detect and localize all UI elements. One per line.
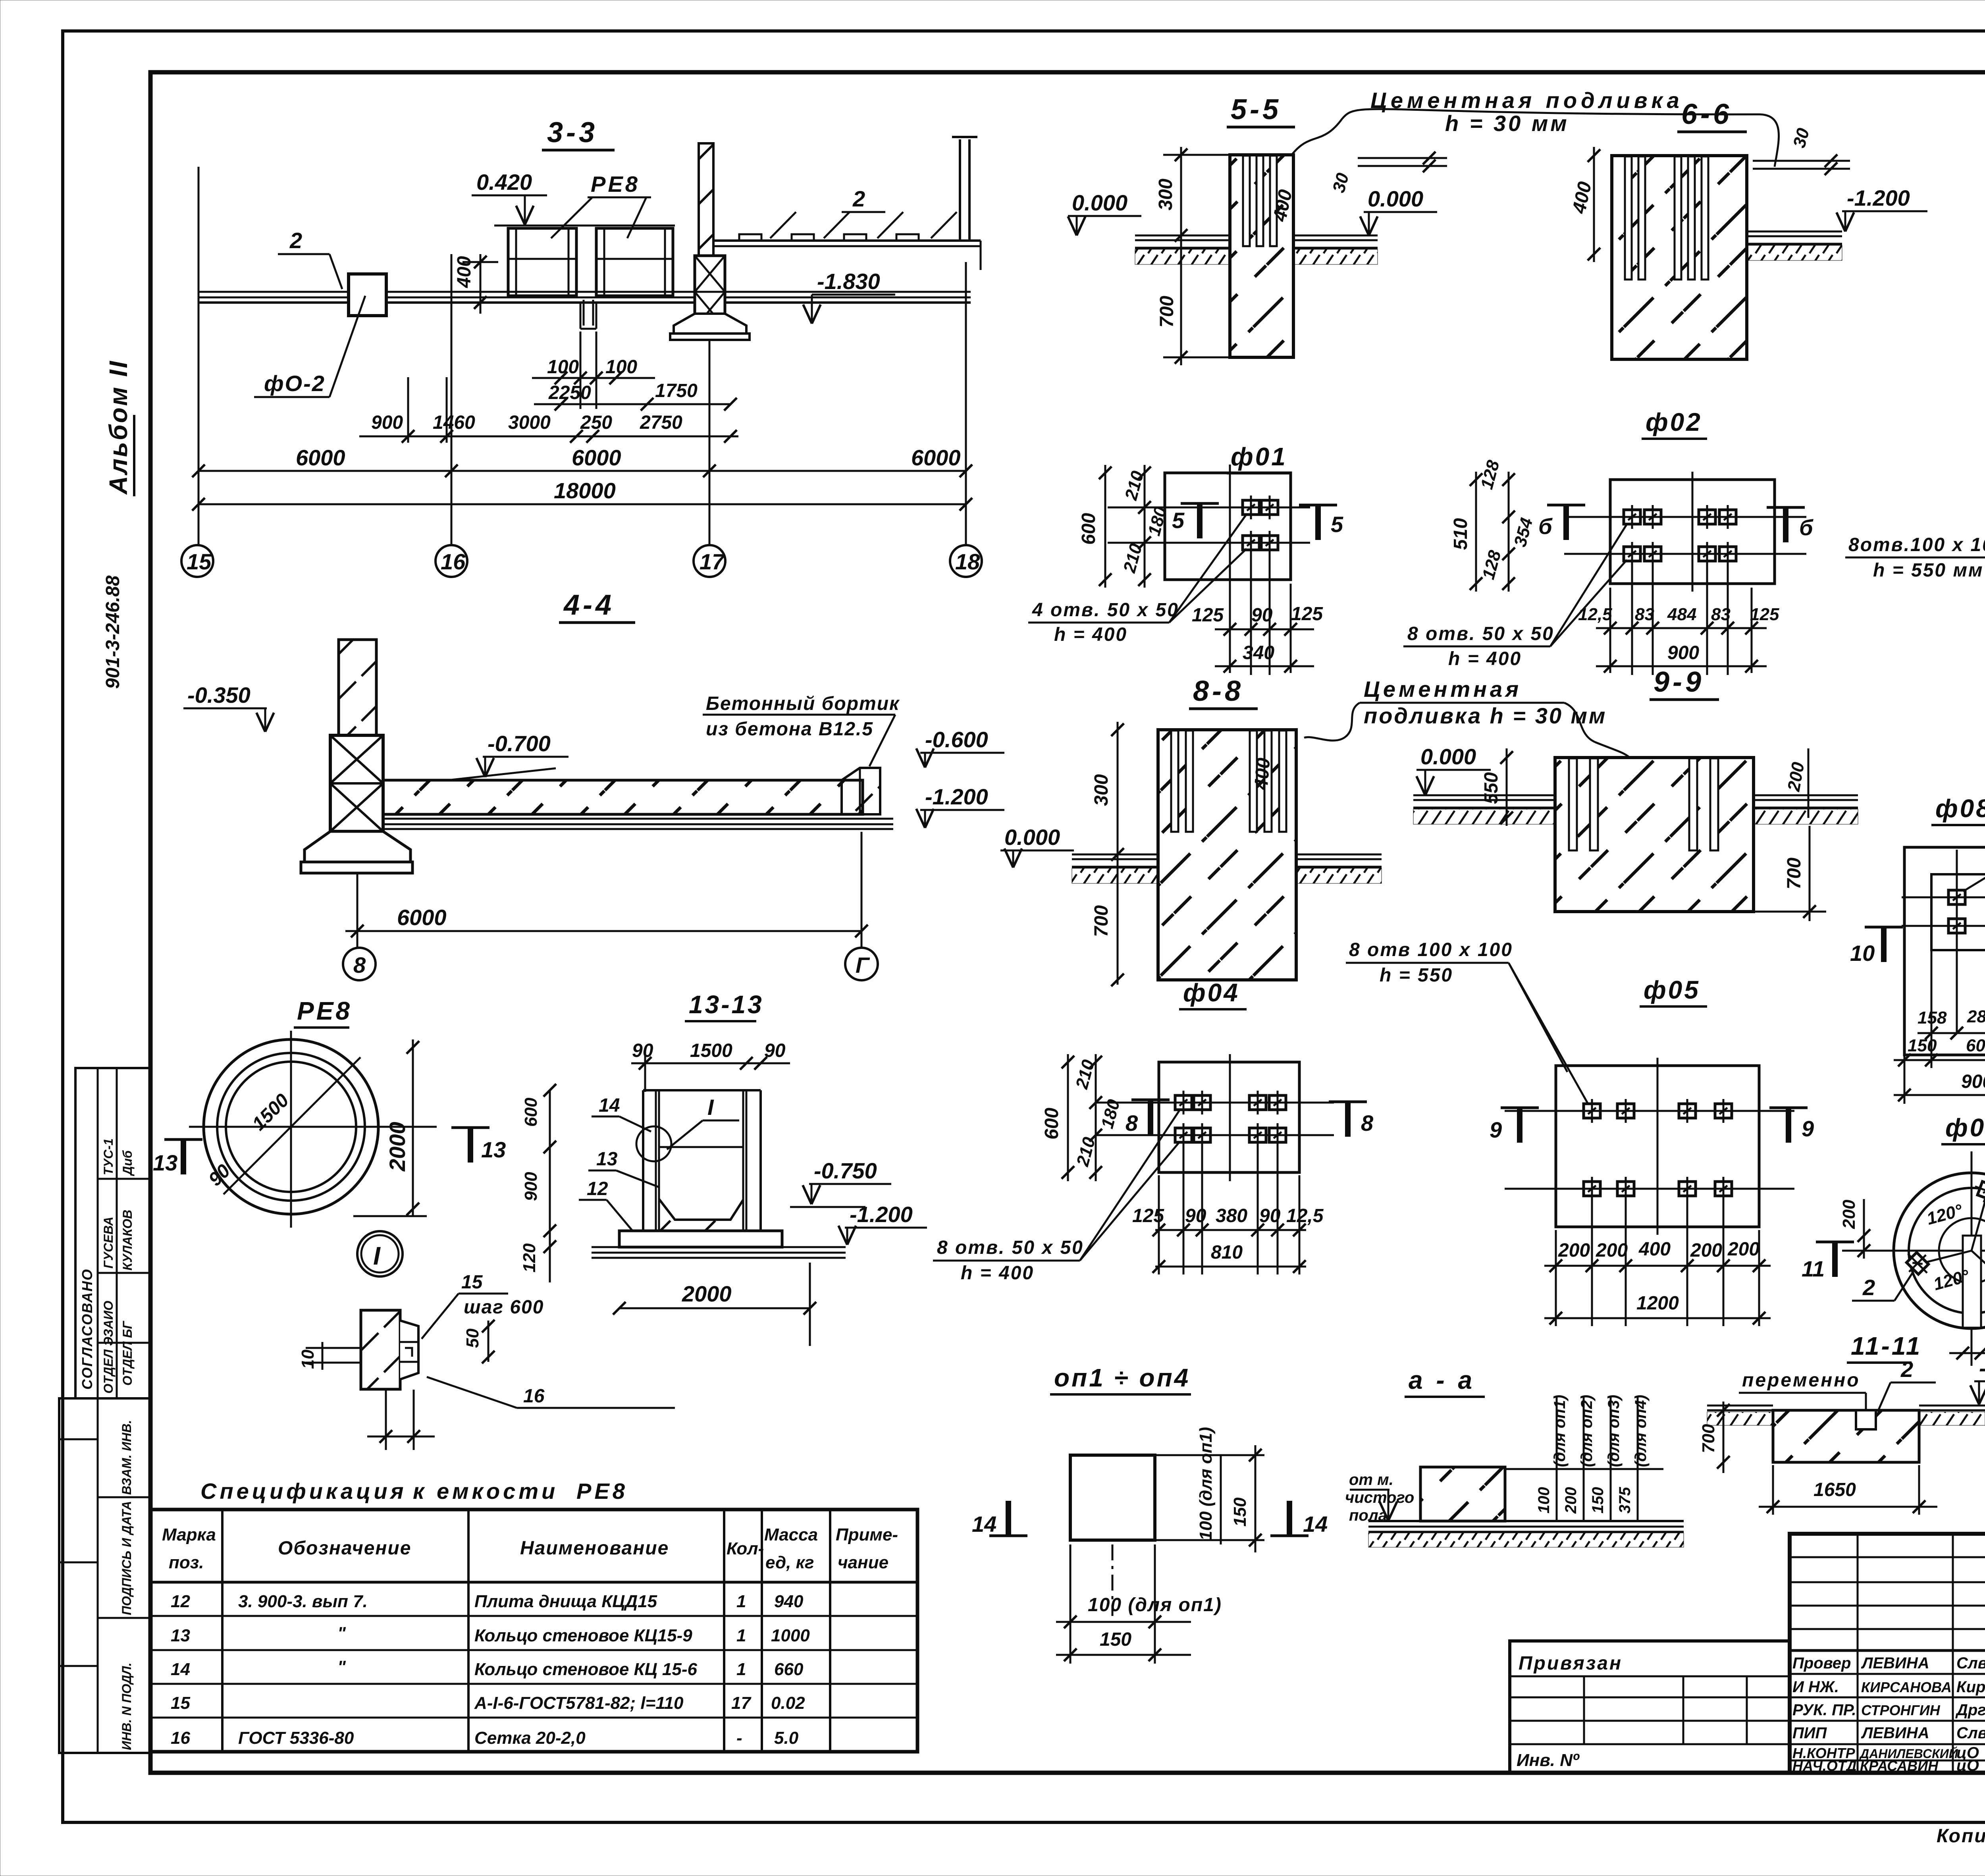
label 8otv 50x50 F04 bbox=[933, 1110, 1180, 1284]
svg-text:РЕ8: РЕ8 bbox=[591, 172, 640, 197]
svg-text:9-9: 9-9 bbox=[1654, 666, 1704, 698]
plan F06 circle bbox=[1842, 1151, 1985, 1366]
section 11-11 block bbox=[1707, 1406, 1985, 1462]
svg-text:600: 600 bbox=[1966, 1036, 1985, 1055]
svg-text:": " bbox=[337, 1623, 346, 1643]
svg-text:СОГЛАСОВАНО: СОГЛАСОВАНО bbox=[79, 1269, 95, 1390]
svg-text:10: 10 bbox=[1850, 941, 1875, 966]
svg-text:400: 400 bbox=[1638, 1239, 1671, 1260]
svg-text:8отв.100 х 100: 8отв.100 х 100 bbox=[1848, 534, 1985, 555]
axis circle G bbox=[845, 948, 878, 980]
axis circle 15 bbox=[181, 545, 213, 577]
svg-text:ф04: ф04 bbox=[1183, 978, 1240, 1007]
svg-text:ф01: ф01 bbox=[1231, 442, 1287, 471]
plan F02 bottom dims bbox=[1578, 561, 1779, 675]
svg-text:17: 17 bbox=[700, 549, 725, 574]
svg-text:пола: пола bbox=[1349, 1507, 1387, 1524]
svg-text:СТРОНГИН: СТРОНГИН bbox=[1861, 1702, 1941, 1718]
svg-text:400: 400 bbox=[1251, 757, 1274, 791]
node detail dim 50 bbox=[463, 1320, 495, 1363]
svg-text:Диб: Диб bbox=[120, 1150, 135, 1176]
svg-text:12,5: 12,5 bbox=[1578, 605, 1612, 624]
svg-text:300: 300 bbox=[1155, 179, 1176, 210]
svg-text:0.000: 0.000 bbox=[1004, 825, 1060, 850]
svg-text:14: 14 bbox=[972, 1512, 996, 1537]
svg-text:11-11: 11-11 bbox=[1851, 1332, 1922, 1360]
svg-text:Г: Г bbox=[856, 952, 870, 978]
svg-text:I: I bbox=[373, 1242, 381, 1270]
svg-text:1: 1 bbox=[736, 1592, 746, 1611]
svg-text:13: 13 bbox=[596, 1149, 618, 1170]
node detail dim 10 bbox=[298, 1342, 361, 1370]
section 5-5 floor lines bbox=[1135, 235, 1378, 264]
svg-text:Копировал: Копировал bbox=[1937, 1826, 1985, 1847]
svg-text:КИРСАНОВА: КИРСАНОВА bbox=[1861, 1679, 1952, 1695]
section a-a left label bbox=[1345, 1471, 1414, 1524]
svg-text:8 отв. 50 х 50: 8 отв. 50 х 50 bbox=[1407, 623, 1554, 644]
svg-text:8-8: 8-8 bbox=[1193, 675, 1244, 707]
svg-text:1000: 1000 bbox=[771, 1626, 810, 1645]
svg-text:ВЗАМ. ИНВ.: ВЗАМ. ИНВ. bbox=[119, 1420, 134, 1495]
svg-text:РЕ8: РЕ8 bbox=[576, 1479, 628, 1504]
section 8-8 foundation bbox=[1158, 730, 1296, 980]
svg-text:(для оп2): (для оп2) bbox=[1578, 1395, 1596, 1467]
svg-text:Кол-: Кол- bbox=[727, 1539, 764, 1558]
PE8 section mark 13 right bbox=[451, 1128, 506, 1163]
svg-text:Цементная: Цементная bbox=[1364, 677, 1522, 702]
svg-text:6000: 6000 bbox=[911, 445, 961, 470]
dim chain 100/100 bbox=[532, 332, 655, 409]
svg-text:-0.700: -0.700 bbox=[488, 731, 551, 756]
right thin column bbox=[952, 137, 977, 241]
svg-text:510: 510 bbox=[1450, 518, 1471, 550]
svg-text:ГОСТ 5336-80: ГОСТ 5336-80 bbox=[238, 1728, 354, 1748]
section 11-11 title bbox=[1847, 1332, 1922, 1363]
concrete curb at slab end bbox=[842, 768, 880, 814]
section 9-9 level 0.000 bbox=[1416, 744, 1491, 795]
plan F05 bottom dims bbox=[1544, 1196, 1771, 1326]
section 11-11 dims bbox=[1699, 1402, 1937, 1515]
svg-text:ПОДПИСЬ И ДАТА: ПОДПИСЬ И ДАТА bbox=[119, 1501, 134, 1615]
svg-text:900: 900 bbox=[521, 1172, 541, 1201]
svg-text:375: 375 bbox=[1616, 1487, 1634, 1514]
label peremenno bbox=[1739, 1370, 1875, 1429]
svg-text:700: 700 bbox=[1699, 1424, 1718, 1453]
svg-text:0.000: 0.000 bbox=[1368, 186, 1423, 211]
plan F01 left dims bbox=[1078, 465, 1171, 588]
plan F05 title bbox=[1640, 976, 1707, 1006]
left margin approval table bbox=[75, 1068, 150, 1398]
svg-text:1: 1 bbox=[736, 1626, 746, 1645]
svg-text:оп1 ÷ оп4: оп1 ÷ оп4 bbox=[1054, 1363, 1190, 1392]
svg-text:90: 90 bbox=[1251, 605, 1273, 626]
svg-text:900: 900 bbox=[1667, 642, 1699, 663]
label PE8 with leaders bbox=[551, 172, 651, 238]
plan F05 section marks 9 bbox=[1490, 1108, 1814, 1143]
svg-text:700: 700 bbox=[1784, 858, 1805, 889]
tanks PE8 on floor bbox=[494, 226, 675, 296]
svg-text:h = 550 мм: h = 550 мм bbox=[1873, 560, 1983, 581]
svg-text:200: 200 bbox=[1690, 1240, 1722, 1261]
plan F08 title bbox=[1931, 794, 1985, 825]
svg-text:250: 250 bbox=[580, 412, 612, 433]
left margin inventory table bbox=[59, 1398, 150, 1753]
svg-text:17: 17 bbox=[731, 1693, 752, 1713]
svg-text:Провер: Провер bbox=[1792, 1654, 1851, 1672]
svg-text:1500: 1500 bbox=[690, 1040, 732, 1061]
pit in floor bbox=[580, 300, 596, 329]
section 3-3 axis lines bbox=[198, 167, 966, 546]
plan F04 bottom dims bbox=[1132, 1142, 1324, 1274]
svg-text:-0.750: -0.750 bbox=[814, 1158, 877, 1183]
section a-a title bbox=[1405, 1366, 1485, 1397]
svg-text:ТУС-1: ТУС-1 bbox=[101, 1138, 116, 1175]
svg-text:1650: 1650 bbox=[1813, 1479, 1856, 1500]
svg-text:15: 15 bbox=[187, 549, 212, 574]
svg-text:15: 15 bbox=[171, 1693, 190, 1713]
svg-text:8: 8 bbox=[1125, 1111, 1138, 1136]
svg-text:Масса: Масса bbox=[764, 1525, 818, 1544]
svg-text:РЕ8: РЕ8 bbox=[297, 997, 352, 1025]
svg-text:2: 2 bbox=[852, 186, 865, 211]
svg-text:200: 200 bbox=[1558, 1240, 1590, 1261]
svg-text:2250: 2250 bbox=[548, 382, 591, 403]
svg-text:0.000: 0.000 bbox=[1072, 190, 1127, 215]
svg-text:(для оп1): (для оп1) bbox=[1551, 1395, 1569, 1467]
column footing bbox=[670, 314, 750, 340]
section 4-4 footing bbox=[301, 831, 412, 873]
section 13-13 tank walls bbox=[643, 1090, 761, 1231]
svg-text:h = 400: h = 400 bbox=[1448, 648, 1522, 669]
svg-text:ф05: ф05 bbox=[1644, 976, 1700, 1004]
label FO-2 with leader bbox=[254, 296, 365, 397]
svg-text:901-3-246.88: 901-3-246.88 bbox=[102, 575, 123, 689]
section 6-6 dims bbox=[1569, 147, 1600, 262]
svg-text:ф08: ф08 bbox=[1935, 794, 1985, 823]
dim 400 pit depth bbox=[454, 254, 498, 314]
section 4-4 floor slab hatched bbox=[383, 780, 893, 829]
plan F02 bbox=[1564, 472, 1806, 592]
svg-text:90: 90 bbox=[1185, 1205, 1206, 1226]
label 8otv 100x100 for F03 bbox=[1845, 534, 1985, 581]
svg-text:5: 5 bbox=[1331, 512, 1343, 537]
svg-text:125: 125 bbox=[1192, 605, 1224, 626]
svg-text:8: 8 bbox=[1361, 1111, 1374, 1136]
svg-text:900: 900 bbox=[1961, 1071, 1985, 1092]
svg-text:а - а: а - а bbox=[1409, 1366, 1475, 1394]
svg-text:150: 150 bbox=[1908, 1036, 1937, 1055]
plan F01 bbox=[1108, 465, 1310, 588]
svg-text:6000: 6000 bbox=[296, 445, 345, 470]
svg-text:Альбом II: Альбом II bbox=[104, 360, 133, 495]
section 5-5 level 0.000 left bbox=[1068, 190, 1141, 235]
svg-text:15: 15 bbox=[461, 1272, 483, 1293]
svg-text:6-6: 6-6 bbox=[1681, 98, 1732, 130]
svg-text:Кольцо стеновое КЦ 15-6: Кольцо стеновое КЦ 15-6 bbox=[474, 1660, 698, 1679]
svg-text:14: 14 bbox=[1303, 1512, 1328, 1537]
svg-text:340: 340 bbox=[1243, 642, 1274, 663]
section 6-6 level -1.200 bbox=[1837, 185, 1927, 231]
section 5-5 level 0.000 right bbox=[1360, 186, 1437, 235]
plan F01 bottom dims bbox=[1192, 550, 1323, 675]
level -0.350 bbox=[183, 683, 274, 732]
svg-text:100: 100 bbox=[605, 357, 637, 378]
level -0.600 bbox=[916, 727, 1004, 767]
svg-text:ПИП: ПИП bbox=[1792, 1724, 1827, 1742]
svg-text:Слв.: Слв. bbox=[1956, 1724, 1985, 1742]
svg-text:900: 900 bbox=[371, 412, 403, 433]
axis circle 18 bbox=[950, 545, 982, 577]
section 5-5 dim 300/700 bbox=[1155, 147, 1230, 365]
plan F02 left dims bbox=[1450, 458, 1537, 592]
plan F02 title bbox=[1642, 408, 1707, 439]
svg-text:КРАСАВИН: КРАСАВИН bbox=[1860, 1758, 1939, 1774]
svg-text:Привязан: Привязан bbox=[1519, 1653, 1623, 1674]
section 6-6 dim 30 bbox=[1753, 126, 1850, 175]
node detail label 16 bbox=[427, 1377, 675, 1408]
grout note 8-8 bbox=[1304, 677, 1630, 758]
axis circle 8 bbox=[343, 948, 376, 980]
svg-text:к емкости: к емкости bbox=[413, 1479, 558, 1504]
svg-text:Приме-: Приме- bbox=[836, 1525, 898, 1544]
svg-text:0.420: 0.420 bbox=[476, 170, 532, 195]
level -1.830 bbox=[803, 269, 895, 324]
section 3-3 title bbox=[542, 117, 615, 150]
section 3-3 floor slab lines bbox=[198, 292, 971, 303]
svg-text:125: 125 bbox=[1291, 603, 1323, 625]
svg-text:поз.: поз. bbox=[169, 1553, 204, 1572]
plan F02 section marks b bbox=[1538, 505, 1813, 542]
plan F06 title bbox=[1941, 1113, 1985, 1144]
svg-text:": " bbox=[337, 1657, 346, 1677]
section 13-13 top dims 1500 90 bbox=[631, 1040, 790, 1092]
title block privyazan box bbox=[1510, 1641, 1790, 1773]
plan F08 bbox=[1902, 847, 1985, 1055]
section 13-13 title bbox=[685, 990, 764, 1021]
svg-text:100: 100 bbox=[1535, 1487, 1553, 1514]
section 8-8 level 0.000 bbox=[1000, 825, 1074, 868]
dim 6000 between axes 8 and G bbox=[345, 832, 868, 947]
svg-text:ОТДЕЛ БГ: ОТДЕЛ БГ bbox=[120, 1321, 135, 1386]
specification title bbox=[200, 1479, 628, 1504]
svg-text:2750: 2750 bbox=[640, 412, 682, 433]
plan F04 left dims bbox=[1041, 1054, 1124, 1181]
section 9-9 foundation bbox=[1555, 758, 1754, 912]
plan F05 bbox=[1505, 1058, 1794, 1235]
svg-text:6000: 6000 bbox=[572, 445, 621, 470]
svg-text:700: 700 bbox=[1091, 905, 1112, 937]
label 2 with leader bbox=[278, 228, 342, 289]
section 5-5 dim 30 grout bbox=[1329, 152, 1447, 195]
support OP right dims bbox=[1155, 1427, 1264, 1552]
svg-text:125: 125 bbox=[1750, 605, 1779, 624]
curb label bbox=[703, 693, 900, 766]
svg-text:13-13: 13-13 bbox=[689, 990, 764, 1019]
svg-text:ЛЕВИНА: ЛЕВИНА bbox=[1861, 1654, 1929, 1672]
svg-text:ед, кг: ед, кг bbox=[765, 1553, 814, 1572]
support OP bottom dims bbox=[1056, 1544, 1222, 1664]
stamp personnel rows bbox=[1792, 1654, 1985, 1774]
svg-text:12: 12 bbox=[587, 1178, 608, 1199]
plan F06 labels 2 bbox=[1852, 1139, 1985, 1330]
svg-text:700: 700 bbox=[1156, 296, 1178, 328]
plan F06 section marks 11 bbox=[1802, 1242, 1985, 1281]
level -1.200 right of 11-11 bbox=[1970, 1355, 1985, 1404]
label 2 at 11-11 bbox=[1878, 1357, 1936, 1411]
label 4otv 100x100 F08 bbox=[1963, 802, 1985, 891]
svg-text:Кольцо стеновое КЦ15-9: Кольцо стеновое КЦ15-9 bbox=[474, 1626, 692, 1645]
svg-text:цО: цО bbox=[1956, 1757, 1979, 1774]
svg-text:12: 12 bbox=[171, 1592, 190, 1611]
svg-text:660: 660 bbox=[774, 1660, 804, 1679]
svg-text:8 отв 100 х 100: 8 отв 100 х 100 bbox=[1349, 939, 1513, 960]
support OP section marks 14 bbox=[972, 1501, 1328, 1537]
section 13-13 detail circle on wall bbox=[636, 1126, 671, 1161]
svg-text:4 отв. 50 х 50: 4 отв. 50 х 50 bbox=[1032, 600, 1179, 621]
dim 18000 bbox=[192, 478, 972, 511]
svg-text:16: 16 bbox=[523, 1386, 545, 1407]
svg-text:300: 300 bbox=[1091, 774, 1112, 806]
svg-text:8: 8 bbox=[353, 952, 366, 978]
svg-text:чание: чание bbox=[838, 1553, 888, 1572]
svg-text:16: 16 bbox=[441, 549, 466, 574]
svg-text:-1.200: -1.200 bbox=[1979, 1355, 1985, 1380]
plan F04 bbox=[1096, 1054, 1334, 1181]
support OP1-OP4 title bbox=[1050, 1363, 1191, 1394]
svg-text:380: 380 bbox=[1216, 1205, 1247, 1226]
svg-text:от м.: от м. bbox=[1349, 1471, 1393, 1488]
svg-text:150: 150 bbox=[1100, 1629, 1131, 1650]
svg-text:2: 2 bbox=[1862, 1275, 1875, 1300]
svg-text:Сетка 20-2,0: Сетка 20-2,0 bbox=[474, 1728, 586, 1748]
svg-text:И НЖ.: И НЖ. bbox=[1792, 1678, 1839, 1696]
svg-text:h = 400: h = 400 bbox=[1054, 624, 1127, 645]
plan PE8 rings bbox=[189, 1031, 437, 1228]
svg-text:А-I-6-ГОСТ5781-82; l=110: А-I-6-ГОСТ5781-82; l=110 bbox=[474, 1693, 684, 1713]
svg-text:2000: 2000 bbox=[385, 1122, 410, 1172]
section 13-13 label I leader bbox=[667, 1095, 739, 1149]
node detail wall block bbox=[361, 1310, 418, 1389]
level -1.200 at 13-13 bbox=[838, 1202, 927, 1245]
svg-text:Инв. Nº: Инв. Nº bbox=[1517, 1751, 1580, 1770]
svg-text:РУК. ПР.: РУК. ПР. bbox=[1792, 1701, 1856, 1719]
axis circle 17 bbox=[694, 545, 725, 577]
svg-text:ф0 6: ф0 6 bbox=[1945, 1113, 1985, 1142]
svg-text:285: 285 bbox=[1967, 1007, 1985, 1026]
svg-text:18000: 18000 bbox=[554, 478, 616, 503]
svg-text:13: 13 bbox=[171, 1626, 190, 1645]
svg-text:Дрг.: Дрг. bbox=[1955, 1701, 1985, 1719]
specification table bbox=[150, 1510, 917, 1752]
section 8-8 floors bbox=[1072, 854, 1382, 883]
plan F01 section marks 5 bbox=[1172, 503, 1343, 540]
svg-text:200: 200 bbox=[1839, 1199, 1859, 1229]
svg-text:2: 2 bbox=[1900, 1357, 1913, 1382]
svg-text:10: 10 bbox=[298, 1350, 318, 1369]
svg-text:200: 200 bbox=[1727, 1239, 1760, 1260]
section 9-9 dims bbox=[1481, 748, 1826, 921]
section 4-4 column hatched bbox=[339, 640, 376, 735]
svg-text:14: 14 bbox=[599, 1095, 620, 1116]
section 5-5 foundation bbox=[1230, 155, 1293, 357]
dim chain 2250/1750 bbox=[534, 380, 737, 411]
plan F01 title bbox=[1227, 442, 1290, 473]
svg-text:Слв.: Слв. bbox=[1956, 1654, 1985, 1672]
plan F08 bottom dims bbox=[1894, 950, 1985, 1104]
section 4-4 pedestal with cross bracing bbox=[330, 735, 383, 831]
svg-text:5: 5 bbox=[1172, 508, 1185, 533]
svg-text:100 (для оп1): 100 (для оп1) bbox=[1196, 1427, 1216, 1541]
node detail label 15 шаг 600 bbox=[422, 1272, 544, 1339]
svg-text:150: 150 bbox=[1589, 1487, 1607, 1514]
svg-text:Плита днища КЦД15: Плита днища КЦД15 bbox=[474, 1592, 657, 1611]
section 9-9 title bbox=[1650, 666, 1719, 700]
svg-text:810: 810 bbox=[1211, 1242, 1243, 1263]
section 5-5 title bbox=[1227, 94, 1295, 127]
svg-text:3000: 3000 bbox=[508, 412, 551, 433]
svg-text:1750: 1750 bbox=[655, 380, 698, 401]
svg-text:Бетонный бортик: Бетонный бортик bbox=[706, 693, 900, 714]
svg-text:9: 9 bbox=[1490, 1117, 1502, 1142]
section 13-13 base bbox=[592, 1231, 846, 1258]
svg-text:ГУСЕВА: ГУСЕВА bbox=[101, 1217, 116, 1269]
svg-text:ф02: ф02 bbox=[1646, 408, 1702, 436]
section 6-6 foundation bbox=[1612, 156, 1747, 359]
svg-text:Кир.: Кир. bbox=[1956, 1678, 1985, 1696]
svg-text:13: 13 bbox=[153, 1150, 177, 1175]
label 8otv 50x50 F02 bbox=[1403, 524, 1627, 669]
section 8-8 dims bbox=[1091, 722, 1274, 986]
svg-text:16: 16 bbox=[171, 1728, 190, 1748]
section a-a level lines with labels bbox=[1505, 1395, 1663, 1521]
svg-text:Спецификация: Спецификация bbox=[200, 1479, 407, 1504]
svg-text:КУЛАКОВ: КУЛАКОВ bbox=[120, 1210, 135, 1271]
svg-text:Наименование: Наименование bbox=[520, 1538, 669, 1559]
svg-text:600: 600 bbox=[1078, 513, 1099, 545]
plan F06 dims bbox=[1839, 1181, 1985, 1359]
svg-text:600: 600 bbox=[521, 1097, 541, 1127]
svg-text:484: 484 bbox=[1667, 605, 1696, 624]
section 8-8 title bbox=[1189, 675, 1258, 709]
label 2 roof slabs with leaders bbox=[770, 186, 957, 238]
svg-text:200: 200 bbox=[1596, 1240, 1628, 1261]
svg-text:50: 50 bbox=[463, 1328, 482, 1348]
svg-text:400: 400 bbox=[454, 256, 475, 288]
plan F08 section marks 10 bbox=[1850, 927, 1985, 966]
svg-text:(для оп3): (для оп3) bbox=[1605, 1395, 1623, 1467]
label 4otv 50x50 bbox=[1028, 514, 1247, 645]
right roof slab bbox=[715, 234, 981, 270]
svg-text:150: 150 bbox=[1230, 1497, 1250, 1527]
svg-text:-1.200: -1.200 bbox=[925, 784, 988, 809]
support OP plan square bbox=[1070, 1455, 1155, 1616]
section 9-9 floors bbox=[1413, 795, 1858, 824]
svg-text:200: 200 bbox=[1562, 1487, 1580, 1514]
svg-text:550: 550 bbox=[1481, 772, 1502, 804]
title block main stamp bbox=[1790, 1534, 1985, 1773]
svg-text:3-3: 3-3 bbox=[547, 117, 598, 148]
svg-text:переменно: переменно bbox=[1742, 1370, 1860, 1391]
svg-text:9: 9 bbox=[1802, 1116, 1814, 1141]
svg-text:5-5: 5-5 bbox=[1231, 94, 1282, 125]
detail circle I bbox=[357, 1231, 403, 1276]
section 13-13 left dims 600 900 120 bbox=[520, 1084, 556, 1282]
svg-text:-1.830: -1.830 bbox=[817, 269, 880, 294]
node detail bottom extension bbox=[367, 1390, 435, 1450]
svg-text:б: б bbox=[1538, 514, 1553, 539]
level 0.420 bbox=[472, 170, 547, 225]
svg-text:120: 120 bbox=[520, 1243, 539, 1273]
